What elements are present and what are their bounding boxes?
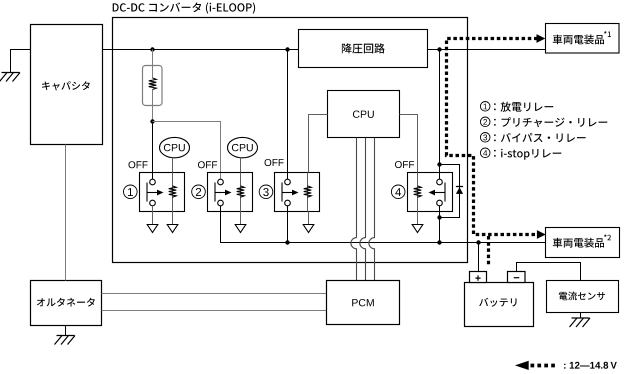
wire current sensor to ground bbox=[580, 313, 582, 319]
wire battery negative to current sensor bbox=[517, 263, 581, 281]
legend item 1 放電リレー bbox=[480, 102, 490, 112]
relay K2 precharge relay bbox=[208, 173, 253, 212]
wire resistor junction to relay2 switch (precharge path) bbox=[153, 122, 221, 180]
wire CPU to PCM line 2 bbox=[360, 138, 366, 281]
dashed flow stub to battery bbox=[487, 236, 490, 265]
wire CPU oval U3 to relay2 coil bbox=[240, 158, 242, 173]
ground (alternator) bbox=[57, 335, 75, 337]
wire relay4 coil to arrow bbox=[417, 212, 419, 225]
wire CPU to relay3 coil bbox=[309, 115, 328, 173]
vehicle devices box 1 車両電装品*1 bbox=[546, 24, 620, 54]
diode D1 bbox=[456, 187, 463, 194]
designator circled 3 bbox=[259, 185, 273, 199]
wire capacitor to alternator bbox=[65, 145, 67, 281]
legend item 2 プリチャージ・リレー bbox=[480, 117, 490, 127]
wire relay3 coil to arrow bbox=[308, 212, 310, 225]
ground (current sensor) bbox=[572, 317, 590, 319]
dashed flow path (12V distribution) bbox=[447, 39, 539, 235]
wire CPU to PCM line 1 bbox=[351, 138, 357, 281]
node relay4 diode branch top bbox=[437, 162, 441, 166]
wire capacitor to ground bbox=[11, 50, 31, 73]
node relay4 lower bus bbox=[437, 240, 441, 244]
wire CPU to PCM line 3 bbox=[369, 138, 375, 281]
legend item 4 i-stopリレー bbox=[480, 148, 490, 158]
wire lower bus to battery positive bbox=[478, 243, 480, 272]
current sensor block 電流センサ bbox=[547, 281, 619, 313]
node battery tap on lower bus bbox=[476, 240, 480, 244]
wire step-down output to vehicle devices 1 bbox=[428, 49, 546, 51]
wire alternator to PCM upper bbox=[102, 293, 327, 295]
CPU oval U2 bbox=[160, 137, 190, 157]
designator circled 1 bbox=[124, 185, 138, 199]
designator circled 4 bbox=[391, 185, 405, 199]
step-down circuit block 降圧回路 bbox=[299, 30, 428, 68]
dashed flow arrowhead to vehicle devices 2 bbox=[537, 230, 546, 239]
wire alternator to ground bbox=[65, 326, 67, 336]
node relay4 tap bbox=[437, 47, 441, 51]
label OFF relay1 bbox=[129, 161, 148, 168]
label OFF relay2 bbox=[198, 161, 217, 168]
diode D1 branch bbox=[440, 165, 460, 218]
precharge resistor R1 (boxed) bbox=[143, 66, 163, 106]
wire relay3 switch to lower bus bbox=[287, 206, 289, 243]
wire relay4 top from bus bbox=[439, 50, 441, 180]
dashed flow arrowhead to vehicle devices 1 bbox=[537, 34, 546, 43]
wire relay2 coil to arrow bbox=[240, 212, 242, 225]
designator circled 2 bbox=[192, 185, 206, 199]
arrow out relay2 coil bbox=[235, 225, 246, 233]
wire resistor junction to relay1 switch bbox=[152, 122, 154, 180]
capacitor block キャパシタ bbox=[31, 25, 103, 145]
node resistor bottom junction bbox=[150, 119, 154, 123]
CPU oval U3 bbox=[228, 137, 258, 157]
wire relay1 coil to arrow bbox=[172, 212, 174, 225]
wire relay3 top from bus bbox=[287, 50, 289, 180]
legend voltage arrow bbox=[515, 361, 529, 370]
battery block バッテリ bbox=[465, 283, 534, 327]
label 12-14.8 V bbox=[564, 362, 617, 369]
CPU block U4 bbox=[328, 91, 400, 138]
label OFF relay3 bbox=[265, 159, 284, 166]
arrow out relay4 coil bbox=[412, 225, 423, 233]
relay K3 bypass relay bbox=[275, 173, 320, 212]
alternator block オルタネータ bbox=[31, 281, 102, 326]
wire relay1 switch to arrow bbox=[152, 206, 154, 225]
node relay3 lower bus bbox=[285, 240, 289, 244]
PCM block bbox=[327, 281, 400, 325]
node relay3 tap bbox=[285, 47, 289, 51]
wire main bus capacitor to step-down circuit bbox=[103, 49, 299, 51]
legend item 3 バイパス・リレー bbox=[480, 133, 490, 143]
arrow out relay1 switch bbox=[147, 225, 158, 233]
arrow out relay3 coil bbox=[303, 225, 314, 233]
relay K4 i-stop relay bbox=[408, 173, 453, 212]
arrow out relay1 coil bbox=[167, 225, 178, 233]
relay K1 discharge relay bbox=[140, 173, 185, 212]
label OFF relay4 bbox=[395, 161, 414, 168]
node relay4 diode branch bottom bbox=[437, 215, 441, 219]
ground (capacitor) bbox=[2, 72, 20, 74]
vehicle devices box 2 車両電装品*2 bbox=[546, 228, 620, 258]
label DC-DC コンバータ (i-ELOOP) bbox=[113, 2, 255, 13]
battery negative terminal bbox=[508, 272, 526, 283]
node resistor tap bbox=[150, 47, 154, 51]
wire alternator to PCM lower bbox=[102, 310, 327, 312]
DC-DC converter block U1 outline bbox=[113, 18, 468, 263]
wire CPU oval U2 to relay1 coil bbox=[172, 158, 174, 173]
wire CPU to relay4 coil bbox=[400, 115, 418, 173]
wire relay4 switch to lower bus bbox=[439, 206, 441, 243]
wire relay2 switch to lower bus bbox=[221, 206, 546, 243]
battery positive terminal bbox=[470, 272, 487, 283]
